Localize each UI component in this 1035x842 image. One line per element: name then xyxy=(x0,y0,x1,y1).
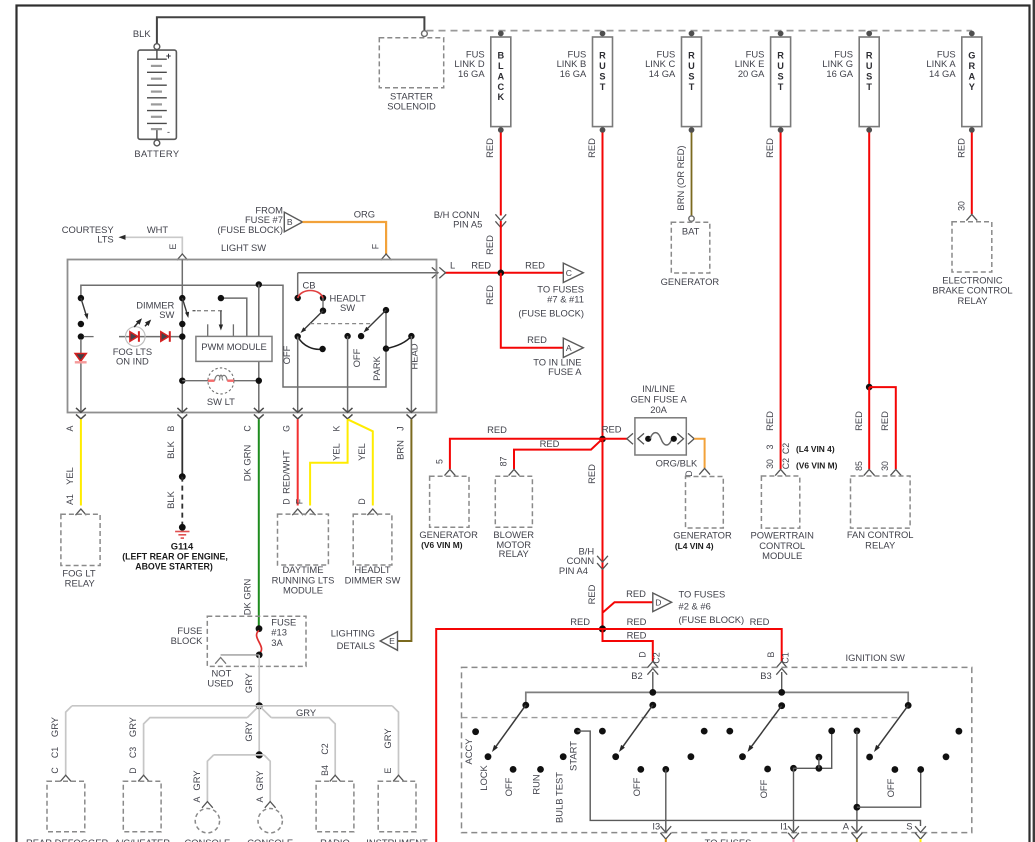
console lamp 1 xyxy=(195,809,219,833)
svg-text:A/C/HEATER: A/C/HEATER xyxy=(114,837,170,842)
svg-text:LOCK: LOCK xyxy=(478,764,489,790)
svg-text:C: C xyxy=(50,767,60,774)
node generator BAT terminal xyxy=(689,216,694,221)
svg-text:(FUSE BLOCK): (FUSE BLOCK) xyxy=(679,614,745,625)
fog lt relay xyxy=(61,514,100,565)
svg-text:I3: I3 xyxy=(652,821,660,832)
svg-text:RELAY: RELAY xyxy=(957,295,988,306)
svg-text:G: G xyxy=(282,425,292,432)
dimmer contacts xyxy=(179,321,185,327)
contact group4 target xyxy=(866,754,873,761)
svg-text:A: A xyxy=(255,796,265,802)
arm run group xyxy=(622,705,653,748)
wire BLK pin B xyxy=(181,419,183,476)
wire RED from fusible link A xyxy=(971,133,973,215)
svg-text:B3: B3 xyxy=(760,670,771,681)
starter solenoid xyxy=(379,38,443,88)
svg-text:(FUSE BLOCK): (FUSE BLOCK) xyxy=(217,224,283,235)
svg-text:GRY: GRY xyxy=(49,716,60,737)
contact RUN xyxy=(537,766,544,773)
triangle connector E lighting details xyxy=(380,632,397,651)
arm lock group xyxy=(495,705,526,748)
fog switch pivot xyxy=(78,295,84,301)
generator (L4 VIN 4) xyxy=(686,477,724,529)
svg-text:C: C xyxy=(243,425,253,432)
rear defogger xyxy=(47,781,85,831)
svg-text:DETAILS: DETAILS xyxy=(337,640,375,651)
svg-text:A: A xyxy=(566,343,572,353)
svg-text:L: L xyxy=(450,259,455,270)
svg-text:FUSE A: FUSE A xyxy=(548,366,582,377)
svg-text:R: R xyxy=(688,50,695,60)
wire WHT to courtesy lts xyxy=(125,237,182,254)
headlamp switch arm right xyxy=(366,310,387,330)
svg-text:B4: B4 xyxy=(320,765,330,776)
svg-text:BRN: BRN xyxy=(394,440,405,460)
park to head arc xyxy=(386,336,411,349)
node GRY console junction xyxy=(256,751,263,758)
blower motor relay xyxy=(495,476,532,527)
fusible link E (RUST) xyxy=(771,37,791,127)
connector pin K xyxy=(343,414,353,419)
contact group3 b xyxy=(726,728,733,735)
wire RED from fusible link D xyxy=(500,133,502,216)
connector headlt dimmer pin D xyxy=(367,509,378,515)
wire ORG from fuse 7 to light switch pin F xyxy=(303,222,387,254)
wire start to S terminal xyxy=(577,731,920,826)
svg-text:K: K xyxy=(497,92,504,102)
svg-text:LIGHTING: LIGHTING xyxy=(331,628,375,639)
wire RED to ignition C1 xyxy=(603,629,782,662)
radio xyxy=(316,781,354,831)
wire YEL pin K to headlt dimmer sw xyxy=(348,419,373,505)
wire pwm feed xyxy=(221,298,247,336)
svg-text:RADIO: RADIO xyxy=(320,837,350,842)
contact ACCY xyxy=(472,728,479,735)
svg-text:GRY: GRY xyxy=(127,716,138,737)
wire headlamp switch rail to L xyxy=(298,273,438,296)
svg-text:DIMMER SW: DIMMER SW xyxy=(345,574,401,585)
mechanical link dashed xyxy=(310,323,372,325)
svg-text:GEN FUSE A: GEN FUSE A xyxy=(630,393,687,404)
svg-text:RED: RED xyxy=(471,259,491,270)
wire pwm output to pin C xyxy=(258,285,260,381)
svg-text:C2: C2 xyxy=(781,458,791,469)
svg-text:3: 3 xyxy=(765,444,775,449)
svg-text:30: 30 xyxy=(956,201,966,211)
svg-text:RED: RED xyxy=(586,464,597,484)
svg-text:(V6 VIN M): (V6 VIN M) xyxy=(421,540,463,550)
svg-text:A: A xyxy=(497,71,504,81)
wire not used stub xyxy=(221,654,260,656)
connector generator L4 pin xyxy=(699,468,710,474)
mechanical link dimmer to pwm xyxy=(193,310,196,312)
svg-text:BRN (OR RED): BRN (OR RED) xyxy=(675,145,686,210)
wire GRY from fuse 13 xyxy=(258,655,260,706)
arm group4 xyxy=(877,705,909,748)
contact I3 feed xyxy=(662,766,669,773)
svg-text:30: 30 xyxy=(880,461,890,471)
svg-text:A: A xyxy=(65,425,75,431)
svg-text:RED: RED xyxy=(764,138,775,158)
wire RED to generator V6 pin 5 xyxy=(450,439,603,469)
connector pin B xyxy=(177,414,187,419)
connector ignition C2 xyxy=(647,662,658,668)
svg-text:S: S xyxy=(778,71,784,81)
svg-text:+: + xyxy=(166,51,171,61)
svg-text:(LEFT REAR OF ENGINE,: (LEFT REAR OF ENGINE, xyxy=(122,552,228,562)
svg-text:R: R xyxy=(599,50,606,60)
svg-text:YEL: YEL xyxy=(331,443,342,461)
connector instrument xyxy=(393,775,404,781)
park contact xyxy=(383,345,389,351)
contact group4 c xyxy=(956,728,963,735)
svg-text:Y: Y xyxy=(969,82,975,92)
connector console 1 xyxy=(202,802,213,808)
connector daytime module pin D xyxy=(292,509,303,515)
contact I1 branch top xyxy=(828,728,835,735)
svg-text:S: S xyxy=(688,71,694,81)
wire RED/WHT pin G to daytime module xyxy=(297,419,299,505)
svg-text:CONSOLE: CONSOLE xyxy=(184,837,230,842)
svg-text:ABOVE STARTER): ABOVE STARTER) xyxy=(135,562,213,572)
svg-text:SOLENOID: SOLENOID xyxy=(387,101,436,112)
a/c heater xyxy=(123,781,161,831)
connector brake relay pin 30 xyxy=(966,214,977,220)
svg-text:I1: I1 xyxy=(780,821,788,832)
svg-text:85: 85 xyxy=(854,461,864,471)
svg-text:ORG/BLK: ORG/BLK xyxy=(656,457,698,468)
node solenoid feed terminal xyxy=(422,31,428,37)
svg-text:(FUSE BLOCK): (FUSE BLOCK) xyxy=(518,308,584,319)
svg-text:RED: RED xyxy=(626,588,646,599)
triangle connector A to in line fuse A xyxy=(563,338,583,357)
svg-text:RED: RED xyxy=(955,138,966,158)
arm b3 group xyxy=(750,706,782,749)
svg-text:BLK: BLK xyxy=(133,28,151,39)
connector pin A xyxy=(76,414,86,419)
wire BRN pin J to lighting details xyxy=(398,419,411,641)
wire ignition B2 stub xyxy=(652,672,654,692)
node fuse 13 top xyxy=(256,625,263,632)
connector I1 xyxy=(788,826,799,832)
svg-text:PIN A4: PIN A4 xyxy=(559,565,588,576)
connector fog lt relay xyxy=(76,509,87,515)
svg-text:GRY: GRY xyxy=(296,707,317,718)
fog switch arm xyxy=(81,298,86,315)
svg-text:TO FUSES: TO FUSES xyxy=(679,589,726,600)
svg-text:16 GA: 16 GA xyxy=(560,68,587,79)
wire I3 output xyxy=(665,769,667,832)
svg-text:RUN: RUN xyxy=(530,774,541,794)
generator (V6 VIN M) xyxy=(430,476,469,527)
svg-text:#7 & #11: #7 & #11 xyxy=(547,293,584,304)
wire ORG/BLK to generator L4 xyxy=(694,439,704,468)
dimmer switch pivot xyxy=(179,295,185,301)
node ignition feed junction xyxy=(599,625,606,632)
svg-text:RED: RED xyxy=(879,411,890,431)
contact BULB TEST xyxy=(560,753,567,760)
svg-text:20A: 20A xyxy=(650,404,667,415)
svg-text:U: U xyxy=(777,61,784,71)
svg-text:C2: C2 xyxy=(320,743,330,754)
svg-text:SW: SW xyxy=(340,302,355,313)
wire YEL pin A to fog lt relay xyxy=(80,419,82,505)
wire pin C lower xyxy=(258,381,260,412)
svg-text:16 GA: 16 GA xyxy=(458,68,485,79)
diode fog lights xyxy=(75,354,86,362)
svg-text:CB: CB xyxy=(302,280,315,291)
contacts K and off2 xyxy=(344,333,350,339)
svg-text:#2 & #6: #2 & #6 xyxy=(679,601,711,612)
contact off4 feed xyxy=(917,766,924,773)
wire ignition B3 stub xyxy=(781,672,783,692)
svg-text:F: F xyxy=(295,498,305,504)
svg-text:RED: RED xyxy=(487,424,507,435)
electronic brake control relay xyxy=(952,222,992,272)
wire battery positive feed to fuse link bus xyxy=(157,17,425,44)
contact group4 b xyxy=(943,753,950,760)
connector console 2 xyxy=(265,802,276,808)
headlamp switch arm left xyxy=(303,311,324,331)
svg-text:OFF: OFF xyxy=(351,348,362,367)
svg-text:C2: C2 xyxy=(781,443,791,454)
svg-text:T: T xyxy=(866,82,872,92)
connector fan relay pins xyxy=(864,469,875,475)
svg-text:BLK: BLK xyxy=(165,490,176,508)
svg-text:20 GA: 20 GA xyxy=(738,68,765,79)
svg-text:RED: RED xyxy=(586,138,597,158)
svg-text:DK GRN: DK GRN xyxy=(242,445,253,481)
connector I3 xyxy=(660,826,671,832)
svg-text:LTS: LTS xyxy=(97,234,114,245)
svg-text:RED: RED xyxy=(627,616,647,627)
svg-text:OFF: OFF xyxy=(885,778,896,797)
node I1 mid xyxy=(816,765,823,772)
svg-text:RELAY: RELAY xyxy=(499,548,530,559)
node fuse 13 bottom xyxy=(256,652,263,659)
svg-text:RED: RED xyxy=(586,584,597,604)
wire BLK dashed to ground xyxy=(181,477,183,528)
contact I1 feed xyxy=(790,765,797,772)
svg-text:OFF: OFF xyxy=(281,345,292,364)
svg-text:OFF: OFF xyxy=(631,777,642,796)
svg-text:START: START xyxy=(568,741,579,771)
svg-text:-: - xyxy=(167,127,170,137)
svg-text:RED: RED xyxy=(750,616,770,627)
contact group3 target xyxy=(739,753,746,760)
triangle connector D to fuses 2 and 6 xyxy=(653,593,672,612)
node generator feed junction xyxy=(599,436,606,443)
svg-text:U: U xyxy=(688,61,695,71)
svg-text:TO FUSES: TO FUSES xyxy=(705,837,752,842)
generator (BAT) xyxy=(671,222,710,273)
svg-text:RED: RED xyxy=(627,629,647,640)
daytime running lts module xyxy=(278,514,329,565)
svg-text:IGNITION SW: IGNITION SW xyxy=(846,652,906,663)
svg-text:RED: RED xyxy=(484,235,495,255)
svg-text:A: A xyxy=(968,71,975,81)
svg-text:BAT: BAT xyxy=(682,225,700,236)
connector powertrain pin xyxy=(775,469,786,475)
svg-text:DK GRN: DK GRN xyxy=(242,579,253,615)
wire pin K internal xyxy=(347,336,349,412)
svg-text:HEAD: HEAD xyxy=(409,343,420,369)
svg-text:T: T xyxy=(689,82,695,92)
svg-text:PARK: PARK xyxy=(371,355,382,381)
wire GRY to consoles xyxy=(258,706,260,755)
svg-text:A: A xyxy=(843,821,850,832)
wire RED fan relay pin 85 xyxy=(868,387,870,469)
headlamp off contact arc xyxy=(298,337,323,350)
svg-text:5: 5 xyxy=(435,459,445,464)
svg-text:(V6 VIN M): (V6 VIN M) xyxy=(796,460,838,470)
svg-text:E: E xyxy=(383,767,393,773)
svg-text:INSTRUMENT: INSTRUMENT xyxy=(366,837,428,842)
head contact xyxy=(408,333,414,339)
svg-text:GRY: GRY xyxy=(254,770,265,791)
svg-text:R: R xyxy=(968,61,975,71)
svg-text:REAR DEFOGGER: REAR DEFOGGER xyxy=(26,837,109,842)
ground G114 xyxy=(179,524,186,531)
connector pin G xyxy=(293,414,303,419)
connector rear defogger xyxy=(60,775,71,781)
svg-text:YEL: YEL xyxy=(64,467,75,485)
svg-text:YEL: YEL xyxy=(356,443,367,461)
svg-text:PWM MODULE: PWM MODULE xyxy=(201,341,267,352)
pwm module ticks xyxy=(207,324,209,336)
contact A top xyxy=(854,728,861,735)
svg-text:GENERATOR: GENERATOR xyxy=(419,529,478,540)
fuse #13 3A xyxy=(257,631,262,654)
svg-text:RED: RED xyxy=(527,334,547,345)
svg-text:C: C xyxy=(497,82,504,92)
svg-text:3A: 3A xyxy=(271,637,283,648)
svg-text:D: D xyxy=(357,498,367,504)
svg-text:J: J xyxy=(395,426,405,430)
contact group3 c xyxy=(688,753,695,760)
svg-text:(L4 VIN 4): (L4 VIN 4) xyxy=(796,444,835,454)
svg-text:GENERATOR: GENERATOR xyxy=(673,530,732,541)
svg-text:D: D xyxy=(282,498,292,504)
connector pin J xyxy=(407,414,417,419)
contact LOCK xyxy=(485,753,492,760)
wire RED to bottom left xyxy=(436,629,602,842)
wire A output xyxy=(856,731,858,832)
svg-text:D: D xyxy=(684,470,694,476)
triangle connector C to fuses 7 and 11 xyxy=(563,263,583,282)
svg-text:B: B xyxy=(766,651,776,657)
contact stub xyxy=(816,754,823,761)
svg-text:R: R xyxy=(777,50,784,60)
svg-text:RED: RED xyxy=(525,259,545,270)
svg-text:RED: RED xyxy=(484,285,495,305)
connector blower relay pin xyxy=(509,469,520,475)
headlamp switch right pivot xyxy=(383,307,389,313)
connector daytime module pin F xyxy=(305,509,316,515)
wire RED from fusible link B xyxy=(602,133,604,440)
svg-text:G: G xyxy=(968,50,975,60)
svg-text:BATTERY: BATTERY xyxy=(134,148,180,159)
svg-text:ORG: ORG xyxy=(354,209,375,220)
contact OFF 4 xyxy=(892,766,899,773)
svg-text:SW: SW xyxy=(159,309,174,320)
pivot lock group xyxy=(522,702,529,709)
connector pin C xyxy=(254,414,264,419)
svg-text:B2: B2 xyxy=(631,670,642,681)
node splice xyxy=(179,473,186,480)
wire GRY bus lower xyxy=(144,706,336,775)
pivot run group xyxy=(649,702,656,709)
svg-text:14 GA: 14 GA xyxy=(929,68,956,79)
svg-text:C1: C1 xyxy=(50,747,60,758)
contact aux xyxy=(599,728,606,735)
svg-text:S: S xyxy=(866,71,872,81)
svg-text:D: D xyxy=(655,598,661,608)
svg-text:LIGHT SW: LIGHT SW xyxy=(221,242,266,253)
wire light switch pin E internal xyxy=(181,260,183,412)
svg-text:GRY: GRY xyxy=(243,721,254,742)
wire light switch feed rail xyxy=(81,285,386,387)
svg-text:RED: RED xyxy=(570,616,590,627)
wire RED branch to fuses 2 and 6 xyxy=(603,602,653,613)
console lamp 2 xyxy=(258,809,282,833)
svg-text:B: B xyxy=(497,50,504,60)
pwm module xyxy=(196,336,272,361)
svg-text:(L4 VIN 4): (L4 VIN 4) xyxy=(675,541,714,551)
svg-text:K: K xyxy=(332,425,342,431)
svg-text:ON IND: ON IND xyxy=(116,356,149,367)
svg-text:IN/LINE: IN/LINE xyxy=(642,383,675,394)
LED fog lts on ind xyxy=(119,336,180,338)
wire A to off4 xyxy=(857,770,921,808)
svg-text:PIN A5: PIN A5 xyxy=(453,219,482,230)
pivot b3 group xyxy=(778,702,785,709)
fog switch contacts xyxy=(78,321,84,327)
svg-text:RELAY: RELAY xyxy=(865,539,896,550)
ignition switch xyxy=(462,667,972,832)
connector ignition C1 xyxy=(776,662,787,668)
connector light switch pin E xyxy=(177,254,188,260)
bus dashed supply line to fusible links xyxy=(427,30,972,32)
wire RED from fusible link E xyxy=(780,133,782,470)
fusible link A (GRAY) xyxy=(962,37,982,127)
powertrain control module xyxy=(761,476,799,528)
diode to dimmer rail xyxy=(161,332,169,342)
svg-text:RED: RED xyxy=(540,438,560,449)
wire pin J internal xyxy=(410,336,412,412)
battery xyxy=(138,50,176,139)
fuse block xyxy=(207,616,306,666)
svg-text:CONSOLE: CONSOLE xyxy=(247,837,293,842)
svg-text:ACCY: ACCY xyxy=(463,738,474,765)
wire ignition bus xyxy=(526,692,908,705)
svg-text:C: C xyxy=(566,268,572,278)
svg-text:BULB TEST: BULB TEST xyxy=(554,772,565,823)
fusible link C (RUST) xyxy=(682,37,702,127)
svg-text:BLOCK: BLOCK xyxy=(171,635,204,646)
node L junction xyxy=(445,272,563,274)
svg-text:T: T xyxy=(778,82,784,92)
svg-text:RED: RED xyxy=(602,424,622,435)
contact group3 a xyxy=(701,728,708,735)
connector light switch pin F xyxy=(381,254,392,260)
connector a/c heater xyxy=(138,775,149,781)
svg-text:U: U xyxy=(599,61,606,71)
svg-text:RELAY: RELAY xyxy=(65,578,96,589)
fan control relay xyxy=(851,476,911,528)
svg-text:R: R xyxy=(866,50,873,60)
